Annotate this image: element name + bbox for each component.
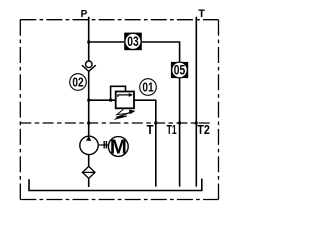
suction strainer (diamond) [82,166,95,178]
junction dot [87,41,90,44]
junction dot P on manifold boundary [87,122,90,125]
manifold boundary (dashed line) [20,122,211,124]
wire strainer to tank [88,178,90,187]
wire T2 line from top T port to tank [195,17,197,187]
wire pump suction [88,155,90,167]
check valve 02 (seat) [82,65,96,71]
svg-text:T: T [198,8,205,20]
relief valve 01 spring [115,109,129,119]
relief valve 01 flow arrow [118,95,130,97]
relief valve 01 body [116,92,134,109]
svg-text:03: 03 [127,34,138,49]
svg-text:T1: T1 [167,123,177,137]
svg-text:05: 05 [174,62,186,77]
svg-text:T2: T2 [197,123,210,137]
relief valve 01 pilot line [111,86,126,100]
svg-text:M: M [110,136,127,158]
label circle 01 [140,79,157,96]
pump outlet triangle [86,136,91,141]
strainer element line [82,171,95,173]
test point 05 [171,62,188,78]
wire P port down to check valve [88,17,90,61]
motor shaft coupling [99,144,109,146]
svg-text:P: P [81,9,88,20]
svg-text:T: T [147,123,154,137]
check valve 02 (ball) [86,61,93,68]
junction dot [87,99,90,102]
wire check valve to pump [88,71,90,136]
pump [80,136,98,154]
wire 03 to corner [142,42,180,62]
wire T1 line down to tank [179,78,181,187]
junction dot pilot [109,99,112,102]
svg-text:02: 02 [72,74,83,89]
junction dot T1 on manifold boundary [178,122,181,125]
electric motor M [108,137,128,157]
wire branch to test point 03 [89,41,125,43]
label circle 02 [70,74,87,91]
relief valve 01 adjust arrow [115,112,130,119]
wire relief valve inlet [89,99,116,101]
junction dot T on manifold boundary [154,122,157,125]
enclosure border (dash-dot frame) [20,20,218,200]
junction dot T2 on manifold boundary [195,122,198,125]
svg-text:01: 01 [142,79,153,94]
tank [29,179,202,191]
wire relief outlet to T line [134,100,156,186]
test point 03 [124,33,142,51]
